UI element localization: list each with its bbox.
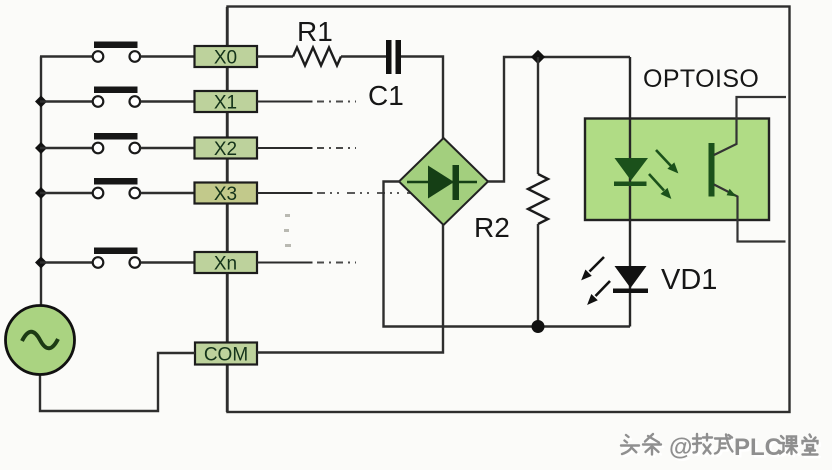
wire X0 switch to box (141, 55, 196, 57)
wire X2 stub right (257, 147, 313, 149)
bridge rectifier D1 (399, 138, 488, 225)
terminal X3 (195, 183, 258, 206)
node junction top R2 (531, 50, 545, 64)
wire bridge left vertex to bottom rail (384, 182, 631, 327)
svg-text:R1: R1 (297, 16, 333, 47)
opto light arrow 1 (656, 150, 678, 173)
svg-text:R2: R2 (474, 212, 510, 243)
resistor R1 (257, 48, 386, 66)
svg-text:X1: X1 (214, 93, 237, 114)
opto light arrow 2 (649, 174, 671, 198)
node junction bus Xn (35, 256, 47, 268)
terminal Xn (195, 252, 258, 275)
watermark ghost specks (284, 214, 291, 247)
node junction bus X2 (35, 142, 47, 154)
wire X3 row left (40, 192, 93, 194)
VD1 light arrow 1 (582, 257, 604, 280)
svg-text:C1: C1 (368, 80, 404, 111)
wire X3 dashed continuation (317, 192, 425, 194)
wire X1 stub right (257, 101, 313, 103)
svg-text:X3: X3 (214, 184, 237, 205)
wire COM to AC source (40, 353, 195, 411)
svg-text:VD1: VD1 (661, 264, 717, 296)
switch S2 (93, 133, 140, 153)
svg-text:X2: X2 (214, 139, 237, 160)
terminal X1 (195, 91, 258, 114)
wire Xn row left (40, 261, 93, 263)
svg-text:COM: COM (204, 345, 248, 366)
wire C1 to bridge top (401, 57, 443, 140)
wire X1 row left (40, 100, 93, 102)
wire left bus vertical (40, 57, 42, 307)
wire X2 row left (40, 147, 93, 149)
switch S3 (93, 178, 140, 198)
svg-text:Xn: Xn (214, 254, 237, 275)
wire terminal column vertical segments (226, 7, 228, 412)
wire X1 dashed continuation (317, 101, 356, 103)
LED VD1 (613, 266, 648, 293)
node junction bottom R2 (532, 320, 545, 333)
opto phototransistor (709, 97, 787, 242)
resistor R2 (528, 57, 548, 327)
wire Xn switch to box (141, 261, 196, 263)
switch S1 (93, 87, 140, 107)
wire X1 switch to box (141, 100, 196, 102)
frame border (228, 7, 790, 413)
terminal X2 (195, 138, 258, 161)
switch Sn (93, 248, 140, 268)
wire bridge bottom to COM (257, 225, 443, 353)
wire X3 stub right (257, 192, 313, 194)
wire X3 switch to box (141, 192, 196, 194)
capacitor C1 (386, 40, 401, 74)
wire X2 dashed continuation (317, 147, 356, 149)
wire Xn dashed continuation (317, 262, 356, 264)
optocoupler U1 box (585, 119, 769, 221)
terminal COM (195, 343, 257, 366)
svg-text:OPTOISO: OPTOISO (643, 65, 759, 93)
wire bridge right vertex to top rail (488, 57, 630, 182)
wire X2 switch to box (141, 147, 196, 149)
VD1 light arrow 2 (588, 281, 610, 304)
opto LED diode (614, 158, 648, 186)
wire X0 row left (40, 55, 93, 57)
wire Xn stub right (257, 262, 313, 264)
node junction bus X3 (35, 187, 47, 199)
terminal X0 (195, 46, 258, 69)
svg-text:X0: X0 (214, 48, 237, 69)
wire LED chain vertical (629, 57, 631, 327)
AC source G1 (6, 306, 75, 375)
switch S0 (93, 42, 140, 62)
node junction bus X1 (35, 95, 47, 107)
